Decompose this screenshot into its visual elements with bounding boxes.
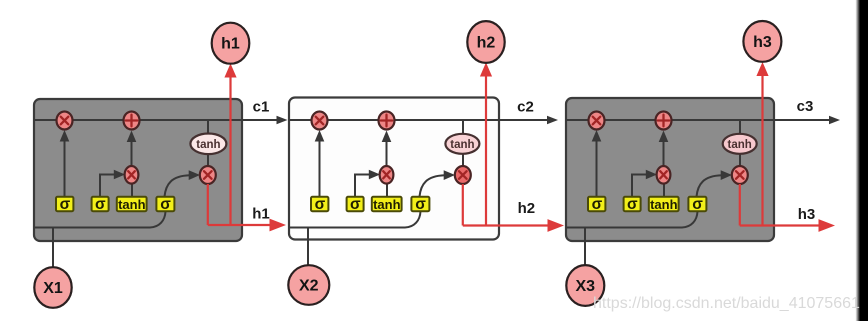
svg-text:X2: X2 [299, 278, 319, 295]
svg-text:tanh: tanh [650, 197, 678, 212]
svg-text:σ: σ [160, 196, 171, 213]
svg-text:h3: h3 [798, 206, 816, 223]
svg-text:tanh: tanh [450, 139, 474, 151]
svg-text:σ: σ [95, 196, 106, 213]
svg-text:h2: h2 [477, 35, 496, 52]
svg-text:h3: h3 [753, 34, 772, 51]
svg-text:σ: σ [350, 196, 361, 213]
svg-text:σ: σ [415, 196, 426, 213]
svg-text:X1: X1 [43, 280, 63, 297]
svg-text:c1: c1 [253, 99, 270, 116]
svg-text:σ: σ [315, 196, 326, 213]
svg-text:σ: σ [627, 196, 638, 213]
svg-text:https://blog.csdn.net/baidu_41: https://blog.csdn.net/baidu_41075661 [593, 295, 860, 312]
svg-text:tanh: tanh [728, 139, 752, 151]
svg-text:h1: h1 [221, 36, 240, 53]
svg-text:σ: σ [592, 196, 603, 213]
svg-text:h1: h1 [252, 206, 270, 223]
svg-text:tanh: tanh [373, 197, 401, 212]
svg-text:c3: c3 [797, 98, 814, 115]
svg-text:tanh: tanh [118, 197, 146, 212]
svg-text:h2: h2 [518, 200, 536, 217]
svg-text:tanh: tanh [196, 139, 220, 151]
svg-text:c2: c2 [517, 99, 534, 116]
svg-text:X3: X3 [576, 278, 596, 295]
svg-text:σ: σ [692, 196, 703, 213]
svg-text:σ: σ [60, 196, 71, 213]
